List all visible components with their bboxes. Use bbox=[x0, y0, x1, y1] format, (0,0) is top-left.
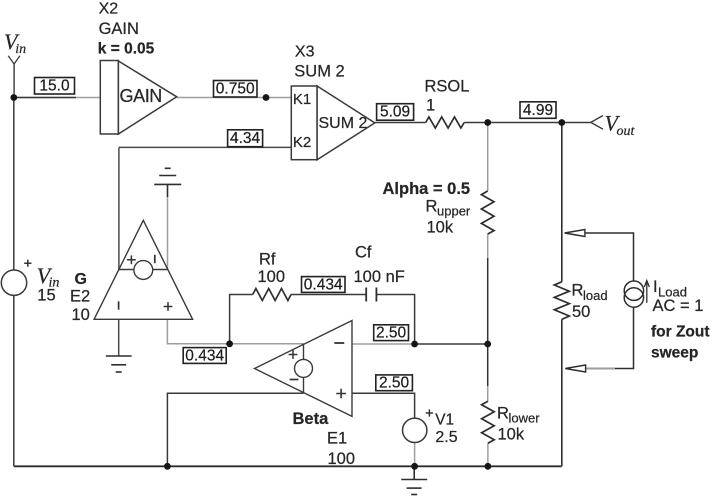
wire 4.34 net to SUM2 K2 bbox=[119, 146, 291, 148]
ground above E2 (inverted) bbox=[154, 168, 181, 197]
svg-text:2.5: 2.5 bbox=[435, 429, 457, 446]
wire mid node dark segment bbox=[487, 258, 489, 386]
value box 0.750 bbox=[214, 81, 258, 98]
gain block X2 bbox=[100, 61, 176, 135]
svg-text:K1: K1 bbox=[293, 91, 311, 108]
svg-text:100: 100 bbox=[258, 268, 286, 286]
wire ILoad bottom gray part bbox=[585, 368, 615, 370]
wire E2 plus output down and right to 0.434 node bbox=[167, 319, 229, 344]
label Beta E1 100 bbox=[293, 410, 356, 468]
wire RSOL to Vout chevron bbox=[464, 122, 591, 124]
value box 5.09 bbox=[377, 104, 414, 121]
value box 4.34 bbox=[228, 130, 263, 147]
wire right rail upper (Vout to Rload) bbox=[561, 123, 563, 282]
Beta control plus sign bbox=[289, 350, 298, 359]
wire 4.34 net vertical down to E2 control plus bbox=[118, 147, 120, 269]
svg-text:10k: 10k bbox=[498, 426, 525, 444]
svg-text:0.434: 0.434 bbox=[304, 276, 343, 293]
junction 0.750 net bbox=[263, 94, 270, 101]
junction divider mid node bbox=[484, 341, 491, 348]
wire right rail lower (Rload to ground rail) bbox=[561, 319, 563, 466]
svg-text:0.750: 0.750 bbox=[216, 81, 255, 98]
wire V1 bottom to ground rail bbox=[414, 443, 416, 467]
label V1 2.5 bbox=[435, 411, 458, 446]
Beta input minus sign bbox=[334, 342, 344, 344]
svg-text:R: R bbox=[497, 405, 509, 423]
wire Beta minus input to feedback node bbox=[352, 343, 415, 345]
svg-text:AC = 1: AC = 1 bbox=[653, 297, 704, 315]
label Rlower bbox=[497, 405, 540, 444]
svg-text:load: load bbox=[583, 288, 608, 303]
wire Vin node to GAIN input bbox=[14, 97, 101, 99]
wire left rail lower (source bottom to ground rail) bbox=[13, 295, 15, 466]
junction ground rail V1 bbox=[411, 463, 418, 470]
svg-text:GAIN: GAIN bbox=[99, 20, 139, 38]
svg-text:10k: 10k bbox=[427, 219, 454, 237]
value box 0.434 left bbox=[183, 347, 226, 364]
svg-text:15.0: 15.0 bbox=[39, 78, 70, 95]
svg-text:lower: lower bbox=[509, 411, 541, 426]
resistor Rload bbox=[554, 282, 569, 320]
wire GAIN output to SUM2 K1 bbox=[177, 97, 292, 99]
Beta control minus sign bbox=[290, 379, 299, 381]
svg-text:G: G bbox=[75, 271, 87, 288]
svg-text:upper: upper bbox=[437, 204, 471, 219]
svg-text:4.99: 4.99 bbox=[523, 102, 553, 119]
wire 0.434 node to Beta control top bbox=[230, 343, 304, 345]
wire Rlower to ground rail bbox=[487, 443, 489, 466]
source ILoad (AC current source) bbox=[624, 281, 643, 307]
value box 15.0 bbox=[35, 78, 75, 95]
junction 2.50 feedback net bbox=[411, 341, 418, 348]
resistor Rf bbox=[253, 289, 291, 301]
svg-text:K2: K2 bbox=[293, 134, 311, 151]
ground below E2 minus bbox=[106, 356, 132, 372]
svg-text:SUM 2: SUM 2 bbox=[294, 62, 344, 80]
svg-text:I: I bbox=[653, 278, 658, 296]
label Rupper bbox=[383, 180, 471, 237]
source Vin (AC source circle) bbox=[1, 260, 31, 296]
junction Vout net right bbox=[558, 119, 565, 126]
svg-text:R: R bbox=[426, 198, 438, 216]
input port Vin bbox=[8, 56, 20, 64]
connection arrow bottom (to ground net) bbox=[565, 365, 585, 372]
svg-text:100 nF: 100 nF bbox=[354, 268, 405, 286]
svg-text:out: out bbox=[617, 124, 636, 139]
capacitor Cf bbox=[366, 288, 376, 302]
svg-text:V1: V1 bbox=[435, 411, 454, 428]
junction Vin node bbox=[10, 94, 17, 101]
label Cf bbox=[354, 244, 405, 287]
wire Beta plus input to V1 bbox=[352, 393, 415, 418]
ILoad direction arrow bbox=[644, 281, 649, 303]
junction ground rail Rlower bbox=[485, 463, 492, 470]
svg-text:GAIN: GAIN bbox=[120, 86, 162, 106]
resistor Rlower bbox=[482, 401, 495, 443]
label X3 block bbox=[294, 44, 344, 81]
wire E2 minus output to lower ground bbox=[118, 319, 120, 356]
svg-text:Cf: Cf bbox=[355, 244, 372, 262]
label Rf bbox=[258, 251, 286, 287]
wire 0.434 node up to Rf bbox=[230, 295, 253, 344]
E2 output plus sign bbox=[164, 302, 173, 311]
wire Vin stem bbox=[13, 64, 15, 98]
E2 control plus sign bbox=[127, 255, 136, 264]
svg-text:RSOL: RSOL bbox=[425, 78, 470, 96]
svg-text:2.50: 2.50 bbox=[379, 375, 410, 392]
wire bottom ground rail bbox=[14, 465, 562, 467]
svg-text:X2: X2 bbox=[99, 1, 119, 18]
label Rload bbox=[572, 282, 608, 322]
label G E2 10 bbox=[70, 271, 90, 324]
junction ground rail left bbox=[164, 463, 171, 470]
svg-text:in: in bbox=[15, 42, 26, 57]
label Vin source bbox=[37, 263, 60, 305]
vcvs E2 (G) triangle bbox=[94, 220, 193, 319]
output chevron Vout bbox=[591, 116, 603, 130]
svg-text:5.09: 5.09 bbox=[380, 104, 410, 121]
svg-text:Rf: Rf bbox=[259, 251, 276, 269]
svg-text:10: 10 bbox=[72, 306, 90, 324]
svg-text:for Zout: for Zout bbox=[651, 323, 710, 340]
label X2 block bbox=[98, 1, 155, 58]
svg-text:1: 1 bbox=[426, 97, 435, 115]
svg-text:15: 15 bbox=[37, 287, 55, 305]
svg-text:Alpha = 0.5: Alpha = 0.5 bbox=[383, 180, 471, 198]
E2 output minus sign (vertical) bbox=[118, 301, 120, 309]
svg-text:2.50: 2.50 bbox=[376, 325, 407, 342]
resistor RSOL bbox=[426, 117, 464, 128]
wire ILoad bottom branch bbox=[585, 307, 634, 368]
wire feedback node to divider node bbox=[415, 343, 488, 345]
wire to Rlower gray segment bbox=[487, 386, 489, 401]
junction 0.434 net bbox=[226, 340, 233, 347]
svg-text:R: R bbox=[572, 282, 584, 300]
label RSOL bbox=[425, 78, 470, 115]
svg-text:sweep: sweep bbox=[651, 345, 698, 362]
Beta input plus sign bbox=[336, 389, 346, 399]
value box 0.434 right bbox=[302, 276, 346, 293]
wire left rail upper (Vin node to source top) bbox=[13, 98, 15, 271]
wire Cf to feedback node bbox=[376, 295, 414, 345]
vcvs Beta (E1) triangle bbox=[255, 321, 353, 417]
wire SUM2 output to RSOL bbox=[375, 122, 426, 124]
wire Rupper to mid node (gray segment) bbox=[487, 234, 489, 258]
wire top ground stem to E2 control minus bbox=[167, 197, 169, 270]
value box 4.99 bbox=[520, 102, 556, 119]
wire Rf to Cf bbox=[291, 294, 366, 296]
svg-text:50: 50 bbox=[572, 303, 590, 321]
svg-text:0.434: 0.434 bbox=[185, 347, 224, 364]
value box 2.50 lower bbox=[376, 375, 413, 392]
resistor Rupper bbox=[481, 191, 494, 234]
svg-text:Beta: Beta bbox=[293, 410, 330, 428]
connection arrow top (to Rload net) bbox=[565, 230, 585, 237]
sum block X3 bbox=[291, 86, 375, 160]
wire Vout node down to Rupper bbox=[487, 123, 489, 192]
junction Vout net left bbox=[484, 119, 491, 126]
svg-text:E2: E2 bbox=[70, 288, 90, 306]
value box 2.50 upper bbox=[374, 325, 409, 342]
svg-text:E1: E1 bbox=[327, 430, 347, 448]
wire ILoad top branch bbox=[585, 233, 634, 281]
wire Vin node dark stub bbox=[14, 97, 76, 99]
svg-text:X3: X3 bbox=[295, 44, 315, 61]
label Vout bbox=[605, 111, 636, 140]
label ILoad bbox=[651, 278, 710, 362]
E2 control minus sign (vertical) bbox=[154, 255, 156, 263]
svg-text:4.34: 4.34 bbox=[230, 130, 261, 147]
svg-text:100: 100 bbox=[328, 450, 356, 468]
svg-text:k = 0.05: k = 0.05 bbox=[98, 40, 155, 57]
label Vin top bbox=[4, 29, 26, 57]
svg-text:SUM 2: SUM 2 bbox=[319, 115, 368, 132]
source V1 bbox=[403, 409, 434, 442]
wire ground rail up to Beta control bottom bbox=[167, 393, 303, 466]
ground below V1 node bbox=[401, 466, 427, 494]
